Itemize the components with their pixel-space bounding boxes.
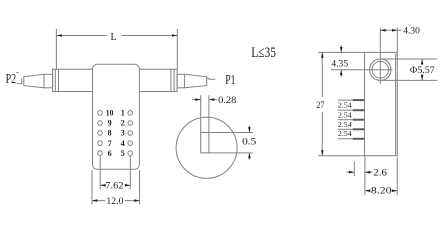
svg-text:L: L: [111, 32, 117, 43]
pin circles left column: [98, 111, 103, 116]
dim 4.30 dimension line: [380, 29, 397, 31]
crosshair horizontal / 4.35 extension: [331, 69, 393, 71]
svg-text:P2: P2: [6, 72, 17, 87]
svg-text:9: 9: [108, 119, 112, 128]
P2 prime tick: [16, 71, 18, 73]
svg-text:2.54: 2.54: [338, 121, 352, 129]
dim 12.0 dimension line: [92, 200, 105, 202]
dim 27 arrows: [321, 52, 324, 57]
pin numbers left column: [106, 109, 125, 158]
svg-text:4.35: 4.35: [331, 59, 348, 69]
fiber divider line: [201, 132, 253, 134]
svg-text:8: 8: [108, 129, 112, 138]
svg-text:1: 1: [121, 109, 125, 118]
svg-text:P1: P1: [225, 73, 235, 88]
dim 8.20 dimension line: [365, 190, 371, 192]
dim 0.28 arrow tails: [192, 99, 201, 101]
dim 8.20 right extension: [396, 157, 398, 195]
svg-text:12.0: 12.0: [106, 197, 123, 207]
fiber right line: [208, 95, 210, 153]
P2 leader: [17, 78, 22, 83]
dim 5.57 top extension: [381, 58, 438, 60]
side body rectangle: [365, 52, 398, 155]
P1 leader: [207, 78, 215, 80]
svg-text:8.20: 8.20: [371, 186, 392, 196]
dim 8.20 arrows: [365, 189, 370, 192]
pin extension lines (thin): [338, 99, 353, 101]
dim 12.0 extension lines: [91, 170, 93, 205]
fiber bottom line: [201, 152, 253, 154]
right cone (ferrule): [185, 74, 207, 88]
side inner right line: [395, 54, 397, 156]
svg-text:Φ5.57: Φ5.57: [410, 66, 435, 76]
dim L: extension line left: [55, 29, 57, 69]
svg-text:7: 7: [108, 139, 112, 148]
svg-text:4: 4: [121, 139, 125, 148]
svg-text:27: 27: [316, 101, 325, 111]
detail circle: [176, 117, 237, 178]
dim L: dimension line: [56, 35, 106, 37]
side pins (thick): [353, 100, 365, 139]
dim 4.35 arrows: [340, 47, 343, 52]
dim 7.62 arrows: [100, 184, 105, 187]
dim 4.30 right extension: [396, 28, 398, 53]
dim 2.6 arrows: [349, 171, 354, 174]
svg-text:2.54: 2.54: [338, 130, 352, 138]
arrowheads: [56, 29, 423, 202]
svg-text:2.6: 2.6: [373, 168, 387, 178]
dim 0.28 arrows: [195, 98, 200, 101]
svg-text:2: 2: [121, 119, 125, 128]
svg-text:0.5: 0.5: [242, 138, 256, 148]
dim L: extension line right: [176, 29, 178, 69]
dim 7.62 extension lines: [99, 156, 101, 190]
dim 5.57 arrows: [421, 59, 424, 64]
dim 7.62 dimension line: [100, 184, 105, 186]
2.54 labels: [338, 102, 352, 139]
dim 2.6 arrow tails: [347, 171, 355, 173]
dim 2.6 / 8.20 left extension (rect left edge extended): [364, 156, 366, 195]
tube cross-section outer circle: [370, 59, 391, 80]
dim 0.5 arrows: [248, 127, 251, 132]
dim 2.6 extension line (pin end): [353, 161, 355, 176]
left step cylinder: [44, 74, 53, 88]
dim 27 bottom extension (rect bottom extended): [318, 155, 365, 157]
svg-text:5: 5: [121, 149, 125, 158]
dim 27 dimension line: [321, 52, 323, 97]
tube cross-section inner circle: [372, 61, 389, 78]
crosshair vertical / 4.30 left extension: [379, 28, 381, 84]
dim 4.30 arrows: [380, 29, 385, 32]
body (package) over tube: [93, 64, 140, 169]
svg-text:2.54: 2.54: [338, 111, 352, 119]
svg-text:L≤35: L≤35: [251, 45, 276, 61]
tube ring line right 1: [170, 69, 172, 91]
tube ring line right 2: [173, 69, 175, 91]
tube ring line left 2: [58, 69, 60, 91]
dim 5.57 dimension line: [421, 59, 423, 66]
dim L arrows: [56, 34, 61, 37]
tube ring line left 1: [54, 69, 56, 91]
side top-right step: [396, 53, 398, 55]
svg-text:0.28: 0.28: [218, 96, 236, 106]
left cone (ferrule): [24, 74, 44, 88]
svg-text:6: 6: [108, 149, 112, 158]
tube (main cylinder): [53, 69, 178, 91]
svg-text:7.62: 7.62: [105, 181, 124, 191]
pin circles right column: [128, 111, 133, 116]
dim 5.57 bottom extension: [381, 79, 437, 81]
right step cylinder: [177, 74, 185, 88]
fiber left line: [200, 95, 202, 153]
dim 12.0 arrows: [92, 199, 97, 202]
dim 27 top extension (rect top extended): [318, 51, 365, 53]
dim 4.35 arrow tails: [340, 45, 342, 53]
svg-text:2.54: 2.54: [338, 102, 352, 110]
svg-text:3: 3: [121, 129, 125, 138]
dim 0.5 arrow tails: [248, 126, 250, 133]
svg-text:4.30: 4.30: [403, 26, 420, 36]
svg-text:10: 10: [106, 109, 114, 118]
